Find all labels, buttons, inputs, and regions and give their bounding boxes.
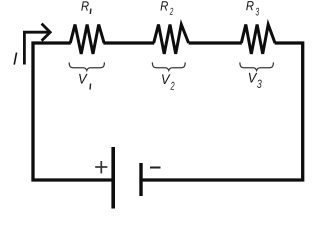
- label V3: [249, 73, 257, 83]
- label V1 subscript 1: [89, 84, 92, 90]
- label I (current): [13, 53, 17, 65]
- label V3 subscript 3: [257, 80, 262, 88]
- label + (battery positive): [95, 161, 107, 173]
- label R2: [160, 1, 167, 10]
- label R3: [246, 1, 253, 10]
- wire: between R2 and R3: [189, 41, 242, 44]
- brace under R3: [240, 62, 274, 70]
- label - (battery negative): [150, 167, 161, 169]
- brace under R2: [152, 62, 185, 70]
- battery positive plate (long): [111, 147, 115, 209]
- wire: R3 to top-right corner, right side, bottom-right to battery -: [143, 43, 303, 180]
- current arrow: [24, 32, 48, 64]
- resistor R1: [70, 25, 104, 54]
- wire: left loop (top-left to R1, left side, bottom-left to battery +): [33, 43, 112, 180]
- label V2 subscript 2: [170, 82, 174, 90]
- label R3 subscript 3: [256, 8, 259, 16]
- brace under R1: [69, 62, 104, 70]
- current arrow head: [42, 24, 51, 41]
- label V1: [79, 74, 87, 84]
- label R1: [81, 1, 88, 10]
- battery negative plate (short): [139, 163, 142, 196]
- label V2: [162, 74, 170, 84]
- label R1 subscript 1: [89, 9, 92, 14]
- label R2 subscript 2: [170, 8, 173, 15]
- resistor R3: [241, 25, 275, 54]
- resistor R2: [154, 25, 189, 54]
- wire: between R1 and R2: [103, 41, 154, 44]
